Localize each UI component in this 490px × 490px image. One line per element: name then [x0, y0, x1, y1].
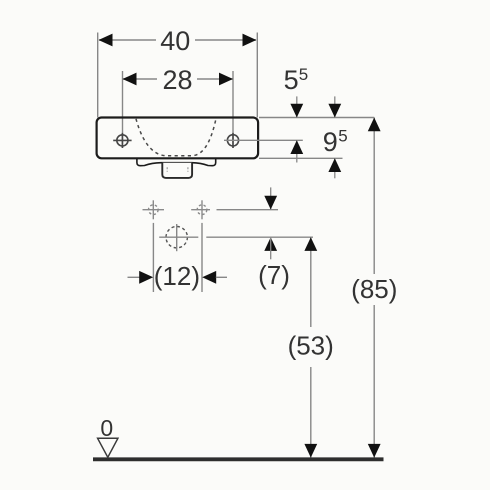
svg-text:0: 0: [100, 415, 113, 441]
svg-text:28: 28: [162, 65, 192, 95]
svg-text:(12): (12): [154, 261, 200, 291]
svg-text:5: 5: [284, 65, 299, 95]
svg-text:9: 9: [323, 127, 338, 157]
svg-text:(7): (7): [258, 260, 290, 290]
svg-text:(85): (85): [351, 274, 397, 304]
svg-text:5: 5: [338, 127, 347, 146]
svg-text:40: 40: [160, 26, 190, 56]
svg-text:5: 5: [299, 65, 308, 84]
svg-text:(53): (53): [288, 330, 334, 360]
